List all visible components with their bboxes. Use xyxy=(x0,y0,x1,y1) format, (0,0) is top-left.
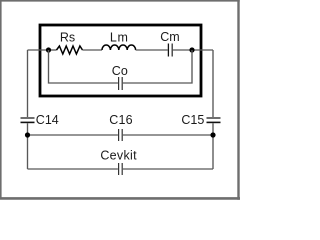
svg-text:Cevkit: Cevkit xyxy=(100,148,137,162)
wire: right external vertical (lower part) xyxy=(212,123,214,169)
svg-text:Co: Co xyxy=(112,64,128,78)
wire: right external vertical (top part) xyxy=(212,50,214,117)
svg-text:Cm: Cm xyxy=(160,30,179,44)
wire: C16 rail left segment xyxy=(28,134,118,136)
wire: Cm to right wall and out (node B) xyxy=(173,49,213,51)
wire: dot to resistor xyxy=(49,49,57,51)
wire: Co branch left vertical xyxy=(49,50,118,83)
capacitor C14 xyxy=(21,117,35,119)
resistor Rs xyxy=(57,46,83,54)
wire: Cevkit rail right segment xyxy=(123,168,213,170)
wire: left external vertical (top part) xyxy=(27,50,29,117)
capacitor Cm xyxy=(167,44,169,57)
outer figure frame xyxy=(0,0,240,200)
wire: left lead into box (node A) xyxy=(28,49,49,51)
junction dot left (C14/C16 node) xyxy=(25,132,30,137)
node A junction dot xyxy=(46,47,51,52)
crystal box (thick rectangle) xyxy=(40,25,201,96)
svg-text:Rs: Rs xyxy=(60,30,75,44)
wire: Co branch right vertical xyxy=(123,50,192,83)
wire: left external vertical (lower part) xyxy=(27,123,29,169)
svg-text:C16: C16 xyxy=(109,113,133,127)
capacitor Cevkit xyxy=(118,163,120,175)
svg-text:Lm: Lm xyxy=(110,30,129,44)
junction dot right (C15/C16 node) xyxy=(210,132,215,137)
capacitor Co xyxy=(118,77,120,90)
svg-text:C15: C15 xyxy=(181,113,204,127)
wire: inductor to Cm xyxy=(136,49,168,51)
capacitor C16 xyxy=(118,129,120,141)
node B junction dot xyxy=(189,47,194,52)
svg-text:C14: C14 xyxy=(36,113,59,127)
wire: resistor to inductor xyxy=(83,49,103,51)
wire: Cevkit rail left segment xyxy=(28,168,118,170)
wire: C16 rail right segment xyxy=(123,134,213,136)
capacitor C15 xyxy=(207,117,221,119)
inductor Lm xyxy=(102,45,136,50)
